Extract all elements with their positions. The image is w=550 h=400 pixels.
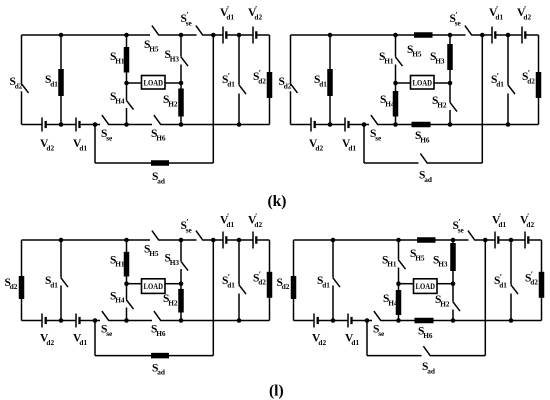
svg-text:d1: d1 bbox=[226, 220, 234, 229]
wire left rail (TR) bbox=[290, 35, 292, 125]
switch S_H5 (open) (BL) bbox=[152, 231, 159, 241]
battery V_d2 (BR) bbox=[314, 314, 319, 328]
svg-text:ad: ad bbox=[157, 368, 165, 377]
wire bottom rail (TR) bbox=[291, 124, 539, 126]
label S'_d2 (TL) bbox=[253, 68, 266, 86]
switch S_se (open) (BL) bbox=[102, 311, 109, 321]
label S_d2 (TR) bbox=[279, 76, 292, 90]
wire right rail (BL) bbox=[269, 240, 271, 321]
wire S'_d1 leg (BL) bbox=[238, 240, 240, 321]
switch S'_se (open) (BL) bbox=[196, 231, 203, 241]
battery V'_d2 (TL) bbox=[253, 27, 257, 44]
label S_se (TR) bbox=[370, 128, 382, 142]
wire S_ad branch right riser (TL) bbox=[212, 35, 214, 163]
label S_H1 (TR) bbox=[379, 51, 394, 65]
wire S_H1 leg (TL) bbox=[126, 35, 128, 83]
switch S_H6 (open) (BL) bbox=[154, 311, 161, 321]
wire S_H1 leg (TR) bbox=[395, 35, 397, 83]
switch S_H3 (closed) (TR) bbox=[447, 44, 453, 70]
battery V_d2 (TR) bbox=[311, 118, 316, 132]
label S_H6 (BR) bbox=[418, 325, 433, 339]
wire S_H2 leg (TL) bbox=[180, 83, 182, 125]
wire left rail (BL) bbox=[21, 240, 23, 321]
svg-text:ad: ad bbox=[157, 176, 165, 185]
wire S_ad branch bottom (BL) bbox=[95, 355, 213, 357]
label S'_se (BR) bbox=[453, 217, 465, 235]
label S_d1 (TL) bbox=[45, 74, 58, 88]
label S_se (TL) bbox=[101, 128, 113, 142]
wire right rail (TR) bbox=[538, 35, 540, 125]
wire left rail (BR) bbox=[293, 240, 295, 321]
switch S'_d1 (open) (BL) bbox=[239, 285, 246, 294]
label S'_se (TL) bbox=[181, 10, 193, 28]
switch S_H5 (open) (TL) bbox=[152, 26, 159, 36]
label S_H6 (TR) bbox=[415, 130, 430, 144]
switch S_se (open) (TL) bbox=[102, 115, 109, 125]
battery V'_d2 (TR) bbox=[522, 27, 526, 44]
battery V_d1 (TL) bbox=[76, 118, 81, 132]
label S_H3 (BR) bbox=[433, 254, 448, 268]
svg-text:ad: ad bbox=[427, 366, 435, 375]
svg-text:d2: d2 bbox=[282, 282, 290, 291]
label S_d1 (BR) bbox=[317, 275, 330, 289]
label V'_d2 (TL) bbox=[248, 4, 262, 22]
node junction dots top rail (BL) bbox=[59, 238, 242, 243]
label S_d2 (TL) bbox=[10, 76, 23, 90]
wire S_H2 leg (BL) bbox=[180, 284, 182, 321]
svg-text:d2: d2 bbox=[10, 282, 18, 291]
switch S_d1 (open) (BL) bbox=[61, 278, 68, 287]
label S_H2 (BR) bbox=[435, 294, 450, 308]
svg-text:d2: d2 bbox=[46, 143, 54, 152]
switch S_H6 (open) (TL) bbox=[154, 115, 161, 125]
label S_H4 (TL) bbox=[110, 91, 125, 105]
svg-text:d1: d1 bbox=[79, 143, 87, 152]
svg-text:d2: d2 bbox=[284, 81, 292, 90]
wire S_ad branch left drop (TR) bbox=[363, 125, 365, 164]
wire right rail (BR) bbox=[541, 240, 543, 321]
wire S'_d1 leg (BR) bbox=[510, 240, 512, 321]
label V_d2 (BR) bbox=[312, 333, 326, 347]
wire S_ad branch left drop (TL) bbox=[94, 125, 96, 164]
wire S_ad branch left drop (BL) bbox=[94, 321, 96, 356]
label S_d1 (BL) bbox=[45, 275, 58, 289]
switch S_H5 (closed) (TR) bbox=[414, 32, 433, 38]
wire S_H2 leg (TR) bbox=[449, 83, 451, 125]
switch S_d1 (closed) (TL) bbox=[58, 69, 64, 96]
svg-text:d2: d2 bbox=[526, 220, 534, 229]
switch S'_d1 (open) (TL) bbox=[239, 85, 246, 94]
wire S_H4 leg (TR) bbox=[395, 83, 397, 125]
battery V'_d2 (BL) bbox=[253, 232, 257, 249]
load box U-LOAD (BR) bbox=[414, 279, 438, 294]
label S_H4 (BL) bbox=[110, 290, 125, 304]
node junction dots bottom rail (TR) bbox=[328, 122, 511, 127]
label V'_d1 (BR) bbox=[492, 211, 506, 229]
wire S_H3 leg (BR) bbox=[452, 240, 454, 284]
svg-text:LOAD: LOAD bbox=[413, 78, 433, 87]
svg-text:se: se bbox=[186, 226, 193, 235]
svg-text:H5: H5 bbox=[412, 49, 422, 58]
svg-text:se: se bbox=[106, 329, 113, 338]
svg-text:H6: H6 bbox=[156, 133, 166, 142]
load box U-LOAD (TL) bbox=[142, 76, 166, 90]
wire top rail (TL) bbox=[22, 34, 270, 36]
switch S'_d2 (closed) (TR) bbox=[536, 72, 542, 98]
wire S_H4 leg (BR) bbox=[398, 284, 400, 321]
svg-text:H6: H6 bbox=[423, 331, 433, 340]
switch S_H4 (open) (TL) bbox=[126, 100, 133, 109]
svg-text:H4: H4 bbox=[388, 298, 398, 307]
switch S_d1 (closed) (TR) bbox=[327, 69, 333, 96]
svg-text:H3: H3 bbox=[170, 54, 180, 63]
switch S'_d2 (closed) (TL) bbox=[267, 72, 273, 98]
switch S_H3 (open) (TL) bbox=[181, 57, 188, 66]
svg-text:d1: d1 bbox=[79, 338, 87, 347]
svg-text:d1: d1 bbox=[227, 79, 235, 88]
svg-text:H1: H1 bbox=[387, 260, 397, 269]
switch S_H2 (closed) (BL) bbox=[178, 289, 184, 313]
label S_H4 (BR) bbox=[383, 293, 398, 307]
svg-text:H3: H3 bbox=[435, 56, 445, 65]
label S_ad (TR) bbox=[419, 170, 432, 184]
wire load left (BR) bbox=[399, 283, 414, 285]
wire S_ad branch left drop (BR) bbox=[366, 321, 368, 356]
svg-text:d2: d2 bbox=[523, 12, 531, 21]
node junction dots load rail (BR) bbox=[396, 281, 455, 286]
svg-text:d1: d1 bbox=[351, 338, 359, 347]
node junction dots top rail (TR) bbox=[328, 33, 511, 38]
switch S_H3 (open) (BL) bbox=[181, 261, 188, 270]
svg-text:se: se bbox=[458, 226, 465, 235]
switch S'_se (open) (TL) bbox=[196, 26, 203, 36]
wire S_H1 leg (BL) bbox=[126, 240, 128, 284]
svg-text:se: se bbox=[106, 133, 113, 142]
svg-text:d1: d1 bbox=[226, 12, 234, 21]
battery V'_d1 (BR) bbox=[495, 232, 499, 249]
switch S_H3 (closed) (BR) bbox=[450, 243, 456, 271]
wire S_d1 leg (BR) bbox=[332, 240, 334, 321]
svg-text:d2: d2 bbox=[254, 12, 262, 21]
svg-text:H6: H6 bbox=[420, 135, 430, 144]
battery V'_d1 (BL) bbox=[223, 232, 227, 249]
switch S_H1 (open) (TR) bbox=[395, 57, 402, 66]
svg-text:H1: H1 bbox=[115, 260, 125, 269]
label S_ad (BR) bbox=[422, 361, 435, 375]
label V_d2 (TL) bbox=[40, 138, 54, 152]
svg-text:d2: d2 bbox=[527, 76, 535, 85]
svg-text:H4: H4 bbox=[385, 99, 395, 108]
label S_H3 (TR) bbox=[430, 51, 445, 65]
switch S'_se (open) (BR) bbox=[468, 231, 475, 241]
svg-text:d1: d1 bbox=[50, 280, 58, 289]
label S'_d1 (TR) bbox=[491, 71, 504, 89]
wire S_ad branch right riser (BR) bbox=[484, 240, 486, 356]
wire S_H1 leg (BR) bbox=[398, 240, 400, 284]
switch S_H6 (closed) (TR) bbox=[412, 122, 431, 128]
switch S'_d1 (open) (TR) bbox=[508, 85, 515, 94]
node junction dots bottom rail (TL) bbox=[59, 122, 242, 127]
svg-text:LOAD: LOAD bbox=[144, 78, 164, 87]
label S'_d1 (BR) bbox=[494, 272, 507, 290]
switch S_H2 (open) (TR) bbox=[450, 102, 457, 111]
switch S_H1 (closed) (BL) bbox=[124, 252, 130, 277]
svg-text:H4: H4 bbox=[115, 296, 125, 305]
switch S_d2 (open) (TL) bbox=[21, 84, 28, 93]
svg-text:H2: H2 bbox=[437, 100, 447, 109]
svg-text:d1: d1 bbox=[322, 280, 330, 289]
label V_d1 (TL) bbox=[73, 138, 87, 152]
wire S_ad branch bottom (TL) bbox=[95, 162, 213, 164]
svg-text:H6: H6 bbox=[156, 329, 166, 338]
label S_ad (BL) bbox=[152, 362, 165, 376]
label S_H1 (TL) bbox=[110, 51, 125, 65]
load box U-LOAD (TR) bbox=[411, 76, 435, 90]
switch S_d2 (open) (TR) bbox=[290, 84, 297, 93]
svg-text:d2: d2 bbox=[258, 278, 266, 287]
label S_H6 (BL) bbox=[151, 324, 166, 338]
wire load right (TR) bbox=[434, 82, 450, 84]
svg-text:d1: d1 bbox=[499, 280, 507, 289]
node junction dots load rail (TR) bbox=[393, 81, 452, 86]
label V'_d1 (TL) bbox=[220, 4, 234, 22]
label S_d2 (BR) bbox=[277, 277, 290, 291]
svg-text:d2: d2 bbox=[254, 220, 262, 229]
label S'_d1 (TL) bbox=[222, 71, 235, 89]
svg-text:LOAD: LOAD bbox=[144, 282, 164, 291]
label S_H2 (TR) bbox=[432, 95, 447, 109]
node junction dots load rail (TL) bbox=[124, 81, 183, 86]
svg-text:H4: H4 bbox=[115, 96, 125, 105]
switch S_H6 (closed) (BR) bbox=[415, 318, 434, 324]
wire load right (TL) bbox=[165, 82, 181, 84]
wire S_d1 leg (BL) bbox=[60, 240, 62, 321]
svg-text:H1: H1 bbox=[115, 56, 125, 65]
svg-text:H3: H3 bbox=[170, 258, 180, 267]
label S_H3 (BL) bbox=[165, 253, 180, 267]
switch S_ad (open) (BR) bbox=[423, 346, 430, 356]
switch S_H2 (open) (BR) bbox=[453, 302, 460, 311]
switch S_H4 (closed) (TR) bbox=[393, 91, 399, 117]
label V'_d1 (TR) bbox=[489, 4, 503, 22]
switch S_se (open) (TR) bbox=[371, 115, 378, 125]
svg-text:d2: d2 bbox=[46, 338, 54, 347]
wire S_H2 leg (BR) bbox=[452, 284, 454, 321]
svg-text:d1: d1 bbox=[319, 79, 327, 88]
label V_d1 (BR) bbox=[345, 333, 359, 347]
battery V_d1 (BR) bbox=[348, 314, 353, 328]
svg-text:d1: d1 bbox=[496, 79, 504, 88]
label V_d2 (BL) bbox=[40, 333, 54, 347]
svg-text:H5: H5 bbox=[415, 253, 425, 262]
svg-text:d2: d2 bbox=[15, 81, 23, 90]
wire bottom rail (TL) bbox=[22, 124, 270, 126]
switch S_H4 (open) (BL) bbox=[126, 300, 133, 309]
switch S'_d1 (open) (BR) bbox=[511, 285, 518, 294]
label S_H5 (TR) bbox=[407, 44, 422, 58]
label S'_d2 (TR) bbox=[522, 68, 535, 86]
wire S'_d1 leg (TL) bbox=[238, 35, 240, 125]
label S_H5 (BR) bbox=[410, 248, 425, 262]
label S_H5 (TL) bbox=[144, 39, 159, 53]
svg-text:d2: d2 bbox=[258, 76, 266, 85]
label S'_se (BL) bbox=[181, 217, 193, 235]
label V'_d2 (BL) bbox=[248, 211, 262, 229]
wire S'_d1 leg (TR) bbox=[507, 35, 509, 125]
svg-text:H2: H2 bbox=[440, 299, 450, 308]
svg-text:d1: d1 bbox=[498, 220, 506, 229]
wire S_d1 leg (TR) bbox=[329, 35, 331, 125]
wire load right (BR) bbox=[437, 283, 453, 285]
label S'_se (TR) bbox=[450, 10, 462, 28]
svg-text:(k): (k) bbox=[268, 193, 287, 210]
switch S_H2 (closed) (TL) bbox=[178, 89, 184, 117]
svg-text:H3: H3 bbox=[438, 260, 448, 269]
battery V_d1 (BL) bbox=[76, 314, 81, 328]
wire bottom rail (BL) bbox=[22, 320, 270, 322]
battery V'_d1 (TR) bbox=[492, 27, 496, 44]
switch S'_d2 (closed) (BL) bbox=[267, 272, 273, 298]
switch S_H1 (open) (BR) bbox=[398, 260, 405, 269]
wire S_ad branch right riser (TR) bbox=[481, 35, 483, 163]
wire bottom rail (BR) bbox=[294, 320, 542, 322]
wire top rail (BL) bbox=[22, 239, 270, 241]
svg-text:se: se bbox=[455, 18, 462, 27]
svg-text:H5: H5 bbox=[149, 44, 159, 53]
label S_H2 (BL) bbox=[163, 293, 178, 307]
switch S_d2 (closed) (BR) bbox=[291, 276, 297, 299]
switch S_H5 (closed) (BR) bbox=[417, 237, 436, 243]
battery V_d2 (TL) bbox=[42, 118, 47, 132]
node junction dots top rail (TL) bbox=[59, 33, 242, 38]
label V'_d2 (BR) bbox=[520, 211, 534, 229]
switch S_d2 (closed) (BL) bbox=[19, 276, 25, 299]
wire S_H3 leg (BL) bbox=[180, 240, 182, 284]
wire S_ad branch right riser (BL) bbox=[212, 240, 214, 356]
label V_d2 (TR) bbox=[309, 138, 323, 152]
label S_d2 (BL) bbox=[5, 277, 18, 291]
svg-text:H1: H1 bbox=[384, 56, 394, 65]
switch S_ad (open) (TR) bbox=[420, 154, 427, 164]
label S_d1 (TR) bbox=[314, 74, 327, 88]
label V'_d2 (TR) bbox=[517, 4, 531, 22]
label S_H4 (TR) bbox=[380, 94, 395, 108]
svg-text:H2: H2 bbox=[168, 298, 178, 307]
switch S_H1 (closed) (TL) bbox=[124, 47, 130, 73]
svg-text:ad: ad bbox=[424, 175, 432, 184]
battery V_d1 (TR) bbox=[345, 118, 350, 132]
label S_H6 (TL) bbox=[151, 128, 166, 142]
node junction dots load rail (BL) bbox=[124, 281, 183, 286]
node junction dots top rail (BR) bbox=[331, 238, 514, 243]
svg-text:se: se bbox=[186, 18, 193, 27]
wire right rail (TL) bbox=[269, 35, 271, 125]
wire load right (BL) bbox=[165, 283, 181, 285]
switch S_ad (closed) (BL) bbox=[151, 353, 169, 359]
svg-text:H5: H5 bbox=[149, 249, 159, 258]
label S'_d2 (BR) bbox=[525, 269, 538, 287]
label S_H5 (BL) bbox=[144, 244, 159, 258]
label S_H1 (BL) bbox=[110, 254, 125, 268]
svg-text:se: se bbox=[375, 133, 382, 142]
switch S_H4 (closed) (BR) bbox=[396, 290, 402, 315]
wire top rail (TR) bbox=[291, 34, 539, 36]
node junction dots bottom rail (BL) bbox=[59, 318, 242, 323]
battery V_d2 (BL) bbox=[42, 314, 47, 328]
wire S_ad branch bottom (BR) bbox=[367, 355, 485, 357]
label S'_d2 (BL) bbox=[253, 269, 266, 287]
wire load left (BL) bbox=[127, 283, 142, 285]
load box U-LOAD (BL) bbox=[142, 279, 166, 294]
svg-text:d1: d1 bbox=[348, 143, 356, 152]
svg-text:d2: d2 bbox=[318, 338, 326, 347]
svg-text:(l): (l) bbox=[269, 383, 284, 400]
svg-text:d1: d1 bbox=[50, 79, 58, 88]
wire S_H4 leg (BL) bbox=[126, 284, 128, 321]
svg-text:d1: d1 bbox=[495, 12, 503, 21]
svg-text:d1: d1 bbox=[227, 280, 235, 289]
svg-text:d2: d2 bbox=[530, 278, 538, 287]
label V_d1 (BL) bbox=[73, 333, 87, 347]
svg-text:LOAD: LOAD bbox=[416, 282, 436, 291]
wire load left (TR) bbox=[396, 82, 411, 84]
svg-text:se: se bbox=[378, 329, 385, 338]
label S_H1 (BR) bbox=[382, 254, 397, 268]
wire load left (TL) bbox=[127, 82, 142, 84]
battery V'_d1 (TL) bbox=[223, 27, 227, 44]
switch S_se (open) (BR) bbox=[374, 311, 381, 321]
wire S_H3 leg (TR) bbox=[449, 35, 451, 83]
label S_se (BL) bbox=[101, 324, 113, 338]
battery V'_d2 (BR) bbox=[525, 232, 529, 249]
wire top rail (BR) bbox=[294, 239, 542, 241]
switch S'_se (open) (TR) bbox=[465, 26, 472, 36]
label S_H2 (TL) bbox=[163, 94, 178, 108]
wire left rail (TL) bbox=[21, 35, 23, 125]
wire S_H3 leg (TL) bbox=[180, 35, 182, 83]
label S_ad (TL) bbox=[152, 171, 165, 185]
label S_se (BR) bbox=[373, 324, 385, 338]
svg-text:H2: H2 bbox=[168, 99, 178, 108]
label S_H3 (TL) bbox=[165, 49, 180, 63]
label V'_d1 (BL) bbox=[220, 211, 234, 229]
wire S_ad branch bottom (TR) bbox=[364, 162, 482, 164]
switch S_d1 (open) (BR) bbox=[333, 278, 340, 287]
svg-text:d2: d2 bbox=[315, 143, 323, 152]
label S'_d1 (BL) bbox=[222, 272, 235, 290]
switch S'_d2 (closed) (BR) bbox=[539, 272, 545, 298]
node junction dots bottom rail (BR) bbox=[331, 318, 514, 323]
switch S_ad (closed) (TL) bbox=[151, 160, 169, 166]
wire S_d1 leg (TL) bbox=[60, 35, 62, 125]
wire S_H4 leg (TL) bbox=[126, 83, 128, 125]
label V_d1 (TR) bbox=[342, 138, 356, 152]
